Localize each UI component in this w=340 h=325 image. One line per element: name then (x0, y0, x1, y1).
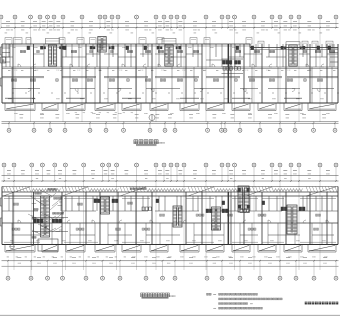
notes line 1 (214, 293, 217, 295)
balcony (42, 103, 58, 110)
bottom plan: bubble leaders (4, 167, 336, 181)
fixtures (94, 199, 100, 203)
bottom plan: detail circle symbol left (10, 244, 14, 248)
stair (289, 45, 297, 66)
fixtures (52, 219, 61, 223)
bottom plan: small text row above dims (7, 256, 9, 258)
top plan: left end room cluster (2, 44, 10, 67)
terrace (284, 245, 302, 253)
fixtures (235, 67, 241, 71)
top plan: right end room cluster (330, 44, 338, 67)
terrace (180, 245, 199, 253)
fixtures (236, 46, 239, 50)
fixtures (206, 209, 212, 213)
fixtures (262, 201, 265, 205)
top plan: room labels upper (20, 50, 22, 52)
top plan: bay windows above top wall (5, 38, 12, 44)
bottom plan: bottom exterior wall (2, 244, 338, 246)
bottom plan: core A terrace box (38, 239, 58, 251)
top plan title: liu ceng ping mian tu 1:100 (134, 140, 138, 144)
top plan: dimension text row 1 (6, 21, 10, 23)
fixtures (27, 46, 30, 50)
top plan: bottom dimension text rows (20, 113, 24, 115)
fixtures (251, 46, 254, 50)
bottom plan: interior horizontal walls (2, 211, 338, 235)
top plan: entry canopies above stair cores (46, 38, 60, 44)
stair core A (41, 196, 50, 237)
bottom plan: expansion joint double wall (228, 192, 230, 245)
balcony (66, 103, 85, 110)
balcony (122, 103, 141, 110)
top plan: unit dividing walls (13, 44, 327, 103)
fixtures (223, 67, 232, 71)
bottom plan: unit dividing walls (13, 192, 327, 245)
top plan: left outside meter box (1, 57, 6, 63)
balcony (5, 103, 35, 110)
stair core B (101, 197, 110, 214)
bottom plan: dense machine room annotations (130, 188, 132, 190)
top plan: upper zone room partitions (y44-67) (9, 44, 332, 67)
notes block bottom right: fu zhu heading (207, 293, 209, 295)
balcony (284, 103, 302, 110)
fixtures (126, 46, 129, 50)
stair core D (287, 205, 297, 234)
notes line 3 (219, 303, 221, 305)
fixtures (34, 219, 43, 223)
top plan: top exterior wall (double line, steps down at right) (2, 43, 250, 45)
terrace (150, 245, 168, 253)
top plan: door swing arcs upper (18, 64, 21, 67)
bottom plan: leader lines cluster (28, 190, 64, 236)
top plan: upper small numbers (12, 47, 15, 49)
top plan: tiny sub-dimension text (6, 29, 9, 31)
bottom plan: roof edge with hatch (2, 186, 338, 188)
bottom plan: top dimension line 1 (2, 175, 339, 177)
bottom plan: bottom dimension line 2 (2, 265, 339, 267)
bottom plan: roof slope diagonals (3, 187, 336, 196)
fixtures (64, 46, 67, 50)
company name bold text (305, 302, 339, 305)
fixtures (281, 207, 287, 211)
top plan: door swing arcs lower (28, 89, 31, 92)
terrace (232, 245, 250, 253)
fixtures (235, 61, 241, 65)
bottom plan: bottom grid bubble row (6, 276, 10, 280)
bottom plan: extra annotation marks near core A (31, 198, 64, 232)
terrace (308, 245, 336, 253)
bottom border line (0, 314, 340, 316)
top plan: dimension line 1 (2, 22, 339, 24)
top plan: mid partial wall (double) (2, 77, 338, 78)
fixtures (156, 199, 159, 203)
terrace (5, 245, 35, 253)
balcony (150, 103, 168, 110)
fixtures (222, 201, 225, 205)
bottom plan: room labels (13, 203, 15, 205)
stair core E (212, 207, 221, 230)
top plan: scattered small marks (8, 71, 339, 94)
bottom plan: roof sawtooth (32, 189, 303, 192)
top plan: right exterior wall (337, 44, 339, 103)
top plan: grid leader lines from bubbles (1, 19, 336, 28)
bottom plan: door arcs (18, 220, 21, 223)
top plan: room labels lower (11, 79, 13, 81)
top plan: left exterior wall (1, 44, 3, 103)
terrace (42, 245, 58, 253)
top plan: bottom dimension line 1 (2, 121, 339, 123)
terrace (258, 245, 276, 253)
fixtures (112, 199, 118, 203)
machine room knot (238, 186, 249, 212)
bottom plan title: ge lou ceng ping mian tu 1:100 (141, 293, 145, 297)
bottom plan: top grid bubble row (2, 163, 6, 167)
top plan: left protruding bay (0, 47, 2, 55)
top plan: compass symbol (149, 115, 155, 121)
fixtures (240, 209, 249, 213)
top plan: stepped facade segments above balconies (5, 97, 302, 99)
balcony (95, 103, 115, 110)
top plan: lower partial walls (12, 88, 334, 90)
fixtures (222, 209, 228, 213)
terrace (66, 245, 85, 253)
bottom plan: top dimension line 2 (2, 180, 339, 182)
top plan: bottom grid bubble row (7, 128, 11, 132)
balcony (308, 103, 336, 110)
balcony (206, 103, 224, 110)
top plan: lower small numbers (8, 98, 11, 100)
top plan: bottom dimension line 2 (2, 122, 339, 124)
bottom plan: long centre grid lines (14, 181, 320, 270)
top plan: small number pairs mid rooms (15, 69, 18, 71)
top plan: small dim text under balconies (14, 113, 17, 115)
fixtures (144, 46, 147, 50)
fixtures (317, 46, 320, 50)
top plan: dimension line 2 with ticks (2, 27, 339, 29)
top plan: mid-row dimension text (between lines) (6, 25, 9, 27)
fixtures (299, 207, 305, 211)
top plan: grid bubble row (top) (0, 15, 3, 19)
stair (48, 45, 56, 66)
bottom plan: left protruding bays (0, 198, 2, 206)
bottom plan: small numbers (10, 240, 13, 242)
top plan: extra small dims cluster x75-140 (75, 112, 77, 114)
fixtures (142, 207, 151, 211)
top plan: dark fixture boxes flanking cores (40, 46, 43, 49)
bottom plan: bottom bubble leaders (8, 260, 336, 276)
bottom plan: secondary verticals lower zone (12, 223, 332, 245)
top plan: upper zone horizontal partitions (2, 54, 338, 60)
stair core C (173, 206, 182, 227)
bottom plan: tiny text under dims (8, 178, 10, 180)
fixtures (223, 61, 232, 65)
bottom plan: top dimension text (7, 170, 11, 172)
bottom plan: exterior walls (2, 195, 338, 197)
bottom plan: bottom dimension line 1 (2, 260, 339, 262)
top plan: long centre grid lines through plan (15, 28, 320, 122)
top plan: lower zone verticals (12, 67, 332, 103)
bottom plan: window lines along walls (4, 199, 336, 243)
top plan: corridor wall (double) (2, 66, 338, 68)
balcony (180, 103, 199, 110)
notes line 4 (214, 307, 217, 309)
terrace (95, 245, 115, 253)
balcony (232, 103, 250, 110)
top plan: tiny label row above wall (5, 32, 7, 34)
stair (165, 45, 173, 66)
top plan: bottom bubble leaders (9, 121, 335, 128)
bottom plan: secondary verticals upper zone (9, 196, 332, 211)
fixtures (328, 46, 331, 50)
stair (98, 37, 106, 53)
bottom plan: bottom dimension texts (18, 256, 22, 258)
balcony (258, 103, 276, 110)
top plan: bottom exterior wall (2, 102, 338, 104)
notes line 2 (219, 298, 221, 300)
terrace (122, 245, 141, 253)
terrace (206, 245, 224, 253)
top plan: expansion joint double wall (228, 44, 230, 103)
